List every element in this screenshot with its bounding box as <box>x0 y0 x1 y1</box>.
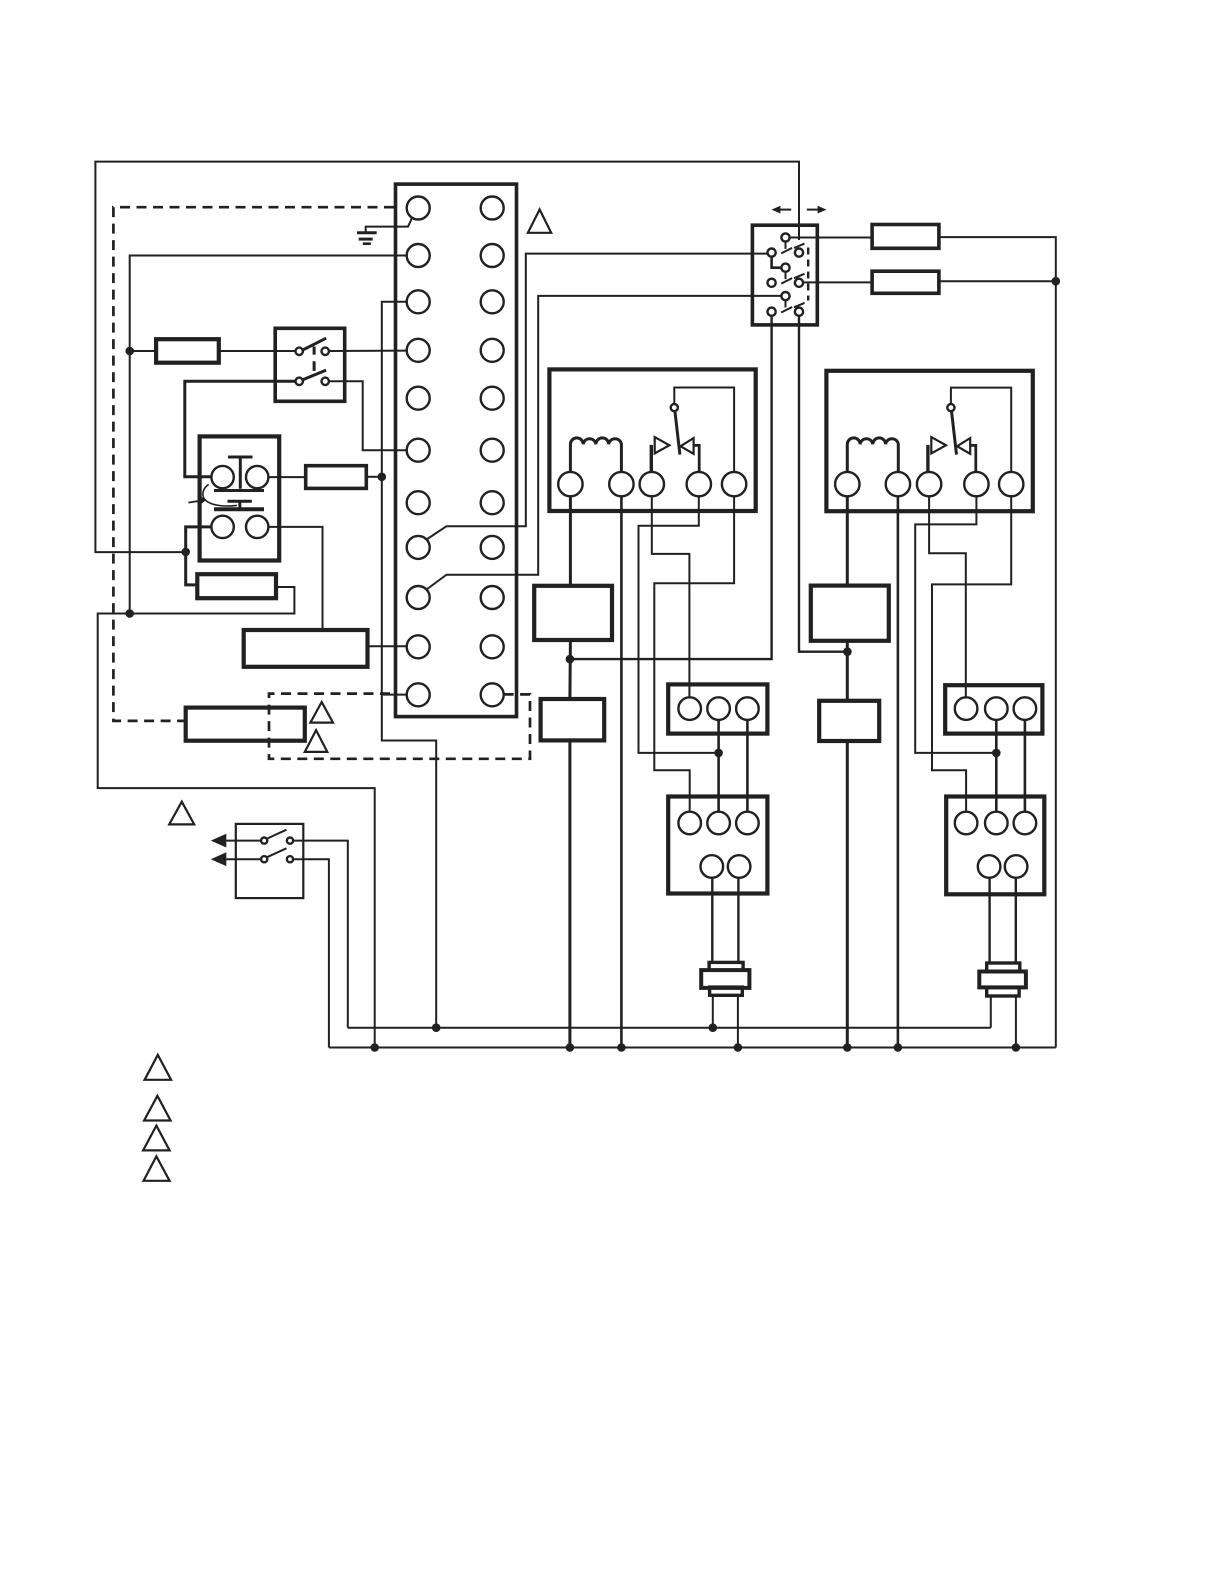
damper switch row2 contacts and blade <box>261 856 267 862</box>
wire: ignition 2 to lower bus <box>846 741 849 1048</box>
connector J4 box <box>946 797 1044 895</box>
resistor R1 <box>156 339 219 363</box>
node: junction terminal row3 riser on upper bus <box>432 1023 441 1032</box>
mercury bulb plate lower <box>214 507 264 511</box>
dashed outdoor thermostat loop <box>269 694 530 759</box>
terminal block circles right column <box>481 197 504 220</box>
wire: changeover pole1 to fuse F1 <box>790 237 873 239</box>
mercury bulb plate upper <box>214 489 264 492</box>
fan switch S1 blade row2 <box>303 370 326 380</box>
plug P2 line voltage connector <box>987 963 1020 972</box>
relay K1 terminal circles <box>558 472 582 496</box>
node: junction J3 pin2 wire <box>992 749 1001 758</box>
fan switch S1 mechanical link dashes <box>313 347 316 371</box>
node: junction plug P2 on lower bus <box>1012 1043 1021 1052</box>
terminal block circles left column <box>407 197 430 220</box>
connector J2 box <box>668 797 767 894</box>
relay K2 fixed contact left arm <box>926 445 929 474</box>
connector J3 box <box>945 685 1042 733</box>
wire: lower bus <box>329 1047 1056 1049</box>
changeover switch S2 box <box>752 225 817 325</box>
connector J4 bottom circles <box>978 855 1001 878</box>
wire: upper bus <box>348 1027 991 1029</box>
wire: mercury top-right to resistor R3 <box>268 476 305 478</box>
node: junction plug P1 on upper bus <box>709 1023 718 1032</box>
wire: fuse F1 to right riser <box>939 237 1056 1047</box>
wire: J3 pin2 down to J4 pin2 <box>995 720 998 812</box>
mercury thermostat box <box>200 436 280 560</box>
footnote triangle 2 <box>144 1096 171 1121</box>
changeover switch link pole1 to pole2 <box>772 257 782 268</box>
wire: limit control 2 to ignition 2 <box>846 641 849 701</box>
node: junction relay K1 terminal2 on lower bus <box>617 1043 626 1052</box>
fan switch S1 contact circles <box>296 348 303 355</box>
wire: changeover pole2 to fuse F2 <box>803 281 872 283</box>
plug P1 line voltage connector <box>709 962 743 971</box>
footnote triangle 4 <box>144 1156 170 1181</box>
changeover switch pole2 <box>781 264 789 272</box>
damper switch row1 contacts and blade <box>261 838 267 844</box>
ground symbol bars <box>357 231 377 234</box>
relay K1 contact pivot and frame <box>674 388 734 472</box>
wire: limit control to ignition box <box>568 640 572 699</box>
wire: relay K1 terminal2 to lower bus <box>620 496 623 1047</box>
relay K2 box <box>826 371 1032 511</box>
wire: terminal row3 riser down to bus <box>382 302 436 1028</box>
warning triangle near terminal block <box>528 210 551 233</box>
relay K2 coil <box>847 438 898 472</box>
wire: fuse F2 to right riser <box>939 280 1056 282</box>
wire: terminal row9 jumper to changeover switch pole <box>427 296 782 590</box>
wire: relay K2 terminal2 to lower bus <box>897 496 900 1047</box>
relay K2 contact pivot and frame <box>951 388 1011 472</box>
resistor R2 <box>197 574 276 598</box>
wire: mercury bottom-left to resistor R2 <box>186 527 212 585</box>
dashed class-2 boundary left <box>113 207 394 721</box>
node: junction ignition1 on lower bus <box>566 1043 575 1052</box>
resistor R5 outdoor thermostat <box>186 708 305 741</box>
damper switch row1 to upper bus <box>293 841 348 1028</box>
wire: relay K2 terminal3 to connector J3 pin1 <box>929 496 966 697</box>
node: junction plug P1 on lower bus <box>734 1043 743 1052</box>
connector J2 top circles <box>678 812 701 835</box>
wire: relay K2 terminal1 down <box>846 496 849 585</box>
damper switch row2 arrow <box>225 858 262 860</box>
node: junction relay K1 coil feed <box>566 655 575 664</box>
wire: dashed stub to terminal row11 left <box>383 694 407 696</box>
fuse F1 <box>872 225 939 249</box>
wire: plug P2 right to lower bus <box>1015 996 1017 1048</box>
relay K2 fixed contact right arm <box>957 438 970 454</box>
wire: mercury bottom-right to resistor R4 <box>268 527 322 630</box>
warning triangle outdoor 2 <box>305 730 328 752</box>
footnote triangle 1 <box>145 1055 172 1080</box>
footnote triangle 3 <box>143 1126 170 1151</box>
damper switch row1 arrow <box>225 840 262 842</box>
wire: resistor R1 to fan switch S1 <box>219 350 296 352</box>
damper switch box <box>236 824 303 898</box>
node: junction relay K2 coil feed <box>843 647 852 656</box>
node: junction hot loop to R2 branch <box>181 548 190 557</box>
mercury bulb pointer arrow <box>188 501 201 503</box>
relay K2 terminal circles <box>835 472 859 496</box>
box ignition control <box>541 699 605 740</box>
wire: resistor R3 to terminal row3 riser <box>366 476 382 478</box>
changeover switch pole1 top contact <box>781 233 789 241</box>
damper switch row2 to lower bus <box>293 859 329 1047</box>
resistor R4 cool anticipator <box>244 630 368 667</box>
fan switch S1 blade row1 <box>303 338 326 350</box>
node: junction ignition2 on lower bus <box>843 1043 852 1052</box>
mercury bulb electrode T-bar <box>228 457 253 489</box>
wire: J4 bottom-left to plug P2 <box>988 878 990 963</box>
wire: J1 pin2 down to J2 pin2 <box>717 720 720 812</box>
wire: J4 bottom-right to plug P2 <box>1015 878 1017 963</box>
resistor R3 heat anticipator <box>306 466 367 489</box>
wire: riser tap to resistor R1 <box>130 350 156 352</box>
wire: relay K2 terminal4 to connector J3 pin2 <box>915 496 996 753</box>
wire: J2 bottom-left to plug P1 <box>711 878 713 963</box>
wire: relay K1 terminal5 to connector J2 pin1 <box>654 496 734 811</box>
connector J4 top circles <box>955 812 978 835</box>
wire: J2 bottom-right to plug P1 <box>737 878 739 963</box>
wire: plug P1 right to lower bus <box>737 996 739 1048</box>
node: junction J1 pin2 wire <box>714 749 723 758</box>
wire: fan switch S1 row2 right to terminal row6 <box>329 381 407 450</box>
fan switch S1 box <box>275 328 345 401</box>
wire: resistor R4 to terminal row10 <box>368 645 407 647</box>
wire: terminal row2 to left vertical riser <box>130 256 407 614</box>
wire: changeover pole3 left contact down to relay K1 feed <box>570 316 772 659</box>
node: junction on row3 riser <box>378 473 387 482</box>
wire: plug P2 left to upper bus end <box>990 996 992 1028</box>
wire: outer hot loop top/left border <box>95 162 799 552</box>
relay K1 box <box>549 369 755 511</box>
connector J1 circles <box>678 697 701 720</box>
relay K1 fixed contact right arm <box>681 438 694 454</box>
box ignition control 2 <box>819 701 879 741</box>
mercury bulb plate middle with stem <box>228 501 252 509</box>
changeover arrows <box>778 209 791 211</box>
warning triangle damper note <box>169 802 194 825</box>
mercury thermostat terminal circles <box>211 466 233 488</box>
mercury bulb tilt arc <box>203 484 237 506</box>
wire: fan switch S1 row2 left to mercury bulb top-left <box>185 381 296 477</box>
box limit control 2 <box>811 586 889 641</box>
wire: relay K1 terminal1 down <box>569 496 572 586</box>
connector J1 box <box>668 684 767 733</box>
relay K1 contact blade <box>675 411 680 455</box>
wire: J3 pin3 down to J4 pin3 <box>1024 720 1027 812</box>
terminal block <box>396 184 517 717</box>
wire: terminal row8 jumper to changeover switch <box>427 254 768 540</box>
wire: changeover pole3 right contact down to relay K2 feed <box>799 316 847 652</box>
node: junction riser/common <box>125 609 134 618</box>
relay K1 coil <box>570 438 621 472</box>
changeover switch mechanical link dashed <box>807 248 809 301</box>
fuse F2 <box>872 271 939 293</box>
relay K2 contact blade <box>952 411 957 455</box>
wire: relay K1 terminal3 to connector J1 pin1 <box>652 496 690 697</box>
wire: J1 pin3 down to J2 pin3 <box>746 720 749 812</box>
node: junction resistor R1 tap <box>125 347 134 356</box>
node: junction relay K2 terminal2 on lower bus <box>894 1043 903 1052</box>
node: junction common riser on lower bus <box>370 1043 379 1052</box>
ground symbol stub from terminal row1 <box>366 218 413 232</box>
wire: relay K1 terminal4 to connector J1 pin2 <box>639 496 719 753</box>
wire: relay K2 terminal5 to connector J4 pin1 <box>932 496 1011 811</box>
connector J2 bottom circles <box>701 855 724 878</box>
wire: fan switch S1 row1 to terminal row4 <box>329 350 407 352</box>
relay K1 fixed contact left arm <box>650 445 653 474</box>
wire: ignition control to lower bus <box>568 740 571 1047</box>
wire: resistor R2 right to common bus <box>98 587 375 1048</box>
node: junction fuses on right riser <box>1052 277 1061 286</box>
box limit control <box>534 586 612 640</box>
wire: plug P1 left to upper bus <box>712 996 714 1028</box>
warning triangle outdoor 1 <box>310 702 333 723</box>
connector J3 circles <box>955 697 978 720</box>
changeover switch pole3 <box>781 292 789 300</box>
